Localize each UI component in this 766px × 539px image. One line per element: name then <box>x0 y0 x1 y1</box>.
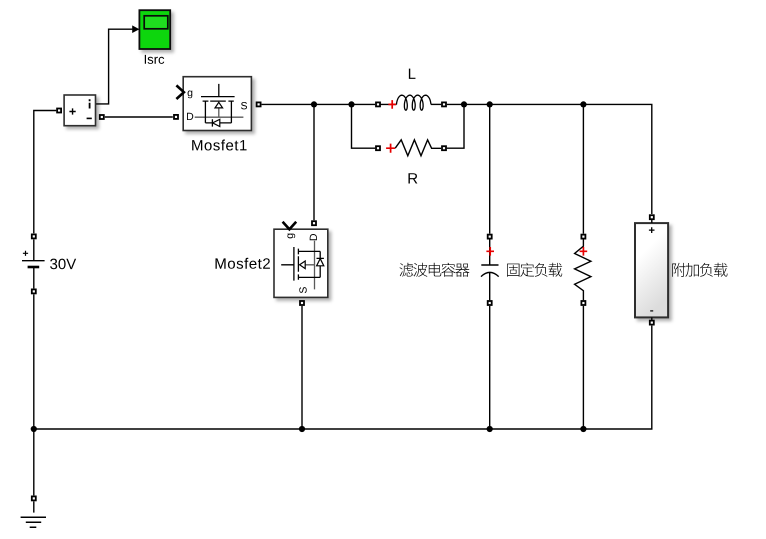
port <box>56 108 62 114</box>
label R <box>408 173 417 183</box>
port <box>375 102 381 108</box>
resistor R <box>375 140 447 156</box>
Mosfet1 pin label D <box>187 113 193 120</box>
ground <box>21 496 46 528</box>
port <box>256 102 262 108</box>
junction node <box>461 101 467 107</box>
junction node <box>580 426 586 432</box>
wire: top rail from inductor to load branch <box>447 104 652 214</box>
Mosfet1 pin label g <box>188 91 193 99</box>
junction node <box>487 426 493 432</box>
sensor - sign <box>87 117 92 119</box>
port <box>441 102 447 108</box>
Mosfet1 pin label S <box>241 102 247 109</box>
port <box>311 220 317 226</box>
junction node <box>348 101 354 107</box>
wire: rail down to capacitor <box>489 104 491 233</box>
wire: R right side up to rail <box>447 104 464 148</box>
junction node <box>311 101 317 107</box>
wire: rail down to fixed load <box>582 104 584 233</box>
junction node <box>580 101 586 107</box>
wire: current sensor - to Mosfet1 D <box>105 116 173 118</box>
wire: Mosfet2 S down to bottom rail <box>301 306 303 429</box>
wire: current sensor i signal to scope <box>96 29 133 104</box>
port <box>487 300 493 306</box>
junction node <box>31 426 37 432</box>
wire: fixed load down to bottom rail <box>582 306 584 429</box>
port <box>441 145 447 151</box>
resistor fixed load <box>575 234 591 306</box>
port <box>31 234 37 240</box>
label 30V <box>50 259 76 270</box>
junction node <box>299 426 305 432</box>
DC source 30V battery <box>22 234 45 295</box>
additional load block <box>635 214 668 325</box>
port <box>581 300 587 306</box>
port <box>649 320 655 326</box>
load - sign <box>650 310 653 312</box>
port <box>487 234 493 240</box>
wire: battery + to current sensor input <box>34 111 57 234</box>
Mosfet2 gate chevron <box>283 222 297 230</box>
port <box>299 300 305 306</box>
polarity mark + <box>386 144 395 153</box>
wire: bottom rail <box>34 326 652 429</box>
port <box>31 496 37 502</box>
signal arrowhead into scope <box>132 25 139 33</box>
polarity mark + <box>580 247 588 256</box>
capacitor (filter capacitor) <box>481 234 499 306</box>
port <box>649 214 655 220</box>
Mosfet1 block <box>176 77 251 131</box>
port <box>99 114 105 120</box>
label Mosfet1 <box>192 140 246 151</box>
load + sign <box>649 227 655 233</box>
Mosfet1 gate chevron <box>176 85 184 99</box>
label Mosfet2 <box>216 258 270 269</box>
polarity mark + <box>486 247 494 256</box>
polarity mark + <box>388 100 396 109</box>
label 滤波电容器 <box>400 263 470 277</box>
wire: rail down-left to R <box>352 104 376 148</box>
label 附加负载 <box>672 263 727 277</box>
wire: top rail from Mosfet1 S to inductor <box>262 103 376 105</box>
Mosfet2 pin label S <box>299 287 306 293</box>
wire: capacitor down to bottom rail <box>489 306 491 429</box>
port <box>31 289 37 295</box>
Mosfet2 mosfet symbol <box>281 241 324 290</box>
wire: battery - down to bottom rail and ground <box>33 294 35 495</box>
inductor L <box>375 95 447 110</box>
label Isrc <box>145 55 164 64</box>
label L <box>409 69 416 79</box>
port <box>581 234 587 240</box>
junction node <box>487 101 493 107</box>
sensor i label <box>89 99 91 108</box>
scope block Isrc <box>139 10 170 49</box>
Mosfet1 mosfet symbol <box>195 84 244 127</box>
wire: rail to Mosfet2 D <box>313 104 315 220</box>
port <box>375 145 381 151</box>
Mosfet2 pin label D <box>310 234 317 240</box>
sensor + sign <box>69 108 75 114</box>
Mosfet2 pin label g <box>287 234 295 239</box>
Mosfet2 block (rotated) <box>274 222 328 298</box>
port <box>173 114 179 120</box>
label 固定负载 <box>507 263 562 277</box>
current sensor block <box>64 95 95 126</box>
